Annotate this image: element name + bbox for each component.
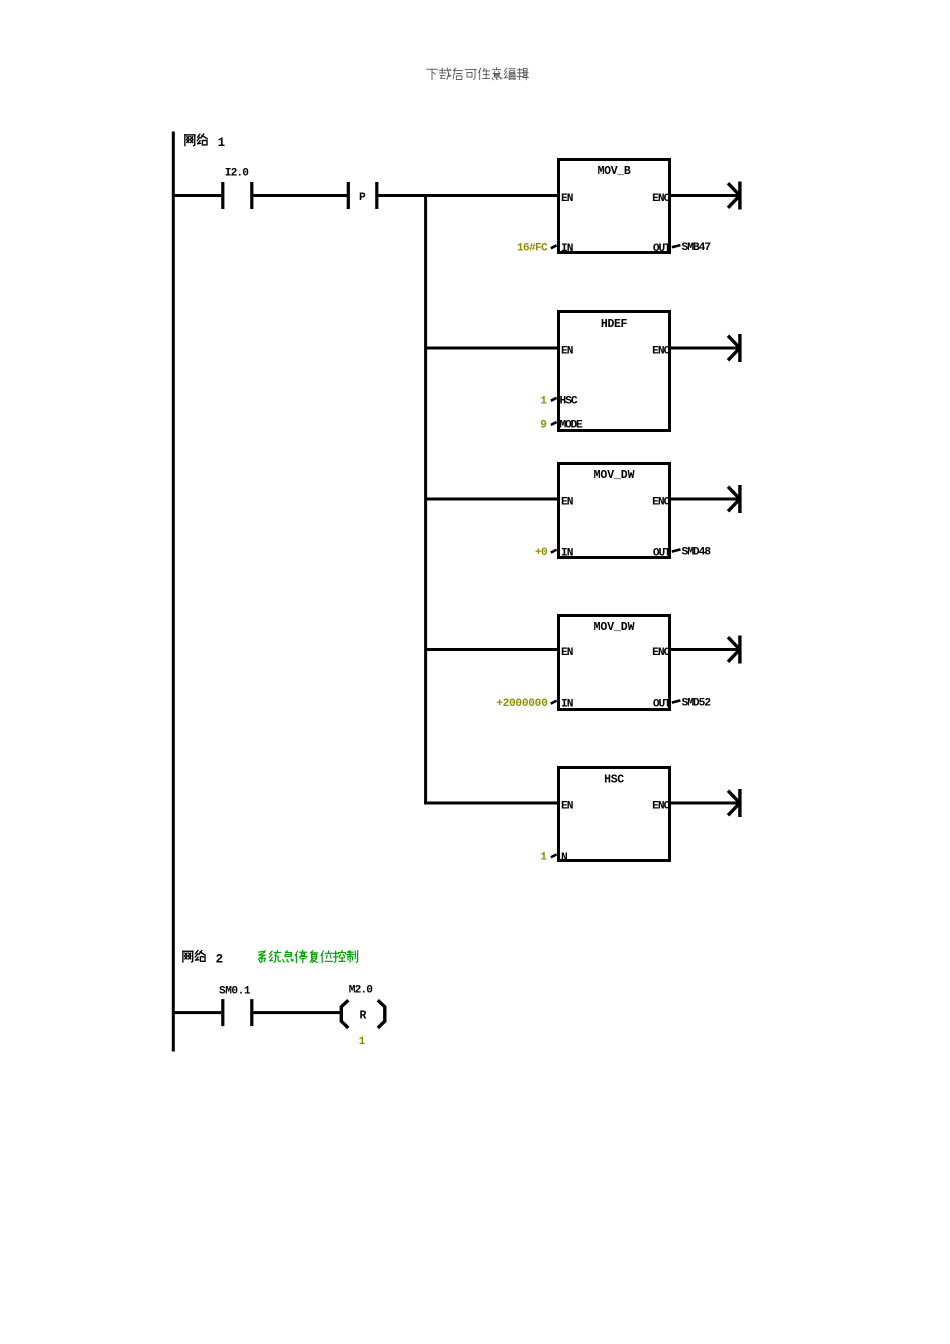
value 1 (reset count) xyxy=(359,1036,366,1048)
value +0 xyxy=(535,547,548,559)
svg-text:9: 9 xyxy=(540,420,547,432)
svg-text:IN: IN xyxy=(561,547,573,559)
function block HSC xyxy=(559,768,670,861)
pin N (HSC) xyxy=(551,852,568,864)
wire contact P to block MOV_B xyxy=(378,194,557,197)
svg-text:OUT: OUT xyxy=(653,243,671,255)
svg-text:OUT: OUT xyxy=(653,698,671,710)
svg-text:IN: IN xyxy=(561,243,573,255)
svg-text:OUT: OUT xyxy=(653,547,671,559)
pin IN (MOV_B) xyxy=(551,243,573,255)
wire rail to contact I2.0 xyxy=(173,194,221,197)
svg-text:SMB47: SMB47 xyxy=(682,242,711,254)
pin EN (HSC) xyxy=(561,801,573,813)
svg-text:SM0.1: SM0.1 xyxy=(219,986,251,998)
positive edge contact P xyxy=(347,182,379,209)
function block MOV_DW (SMD48) xyxy=(559,464,670,558)
pin ENO (MOV_DW 2) xyxy=(652,647,670,659)
wire contact I2.0 to contact P xyxy=(253,194,347,197)
svg-text:ENO: ENO xyxy=(652,193,670,205)
pin ENO (HDEF) xyxy=(652,346,670,358)
svg-text:1: 1 xyxy=(540,395,547,407)
svg-text:MOV_DW: MOV_DW xyxy=(594,621,635,634)
wire rail to contact SM0.1 xyxy=(173,1011,221,1014)
pin ENO (HSC) xyxy=(652,801,670,813)
function block MOV_DW (SMD52) xyxy=(559,616,670,710)
wire contact SM0.1 to coil xyxy=(253,1011,340,1014)
svg-text:EN: EN xyxy=(561,801,573,813)
value 1 (HSC) xyxy=(540,395,547,407)
svg-text:EN: EN xyxy=(561,346,573,358)
value 1 (N) xyxy=(540,852,547,864)
pin OUT (MOV_DW 2) xyxy=(653,698,681,710)
svg-text:SMD48: SMD48 xyxy=(682,546,712,558)
svg-text:I2.0: I2.0 xyxy=(225,167,249,179)
pin EN (MOV_B) xyxy=(561,193,573,205)
svg-text:EN: EN xyxy=(561,497,573,509)
value 9 (MODE) xyxy=(540,420,547,432)
operand label M2.0 xyxy=(349,985,373,997)
svg-text:MODE: MODE xyxy=(560,420,584,432)
pin ENO (MOV_B) xyxy=(652,193,670,205)
ENO arrow (MOV_DW 1) xyxy=(671,485,742,513)
wire branch to MOV_DW 2 xyxy=(426,648,557,651)
pin EN (HDEF) xyxy=(561,346,573,358)
header note text 下载后可任意编辑 xyxy=(427,68,529,80)
branch vertical wire xyxy=(424,196,427,804)
function block HDEF xyxy=(559,312,670,431)
network 2 comment 系统急停复位控制 xyxy=(259,950,358,962)
svg-text:EN: EN xyxy=(561,647,573,659)
operand label I2.0 xyxy=(225,167,249,179)
svg-text:IN: IN xyxy=(561,698,573,710)
ENO arrow (MOV_DW 2) xyxy=(671,636,742,664)
svg-text:+2000000: +2000000 xyxy=(496,698,548,710)
svg-text:1: 1 xyxy=(359,1036,366,1048)
svg-text:R: R xyxy=(360,1010,367,1023)
wire branch to MOV_DW 1 xyxy=(426,498,557,501)
ENO arrow (MOV_B) xyxy=(671,182,742,210)
svg-text:SMD52: SMD52 xyxy=(682,697,712,709)
svg-text:ENO: ENO xyxy=(652,801,670,813)
operand SMD48 xyxy=(682,546,712,558)
pin EN (MOV_DW 2) xyxy=(561,647,573,659)
svg-text:MOV_DW: MOV_DW xyxy=(594,469,635,482)
svg-text:2: 2 xyxy=(216,952,224,966)
pin OUT (MOV_B) xyxy=(653,243,681,255)
svg-text:P: P xyxy=(359,192,366,204)
operand SMD52 xyxy=(682,697,712,709)
pin HSC (HDEF) xyxy=(551,395,578,407)
svg-text:ENO: ENO xyxy=(652,346,670,358)
wire branch to HDEF xyxy=(426,347,557,350)
svg-text:HDEF: HDEF xyxy=(601,318,628,331)
pin ENO (MOV_DW 1) xyxy=(652,497,670,509)
pin IN (MOV_DW 1) xyxy=(551,547,573,559)
svg-text:M2.0: M2.0 xyxy=(349,985,373,997)
pin IN (MOV_DW 2) xyxy=(551,698,573,710)
pin MODE (HDEF) xyxy=(551,420,583,432)
svg-text:+0: +0 xyxy=(535,547,548,559)
svg-text:ENO: ENO xyxy=(652,497,670,509)
contact I2.0 xyxy=(221,182,253,209)
contact SM0.1 xyxy=(221,999,253,1026)
svg-text:1: 1 xyxy=(218,136,226,150)
operand SMB47 xyxy=(682,242,711,254)
svg-text:MOV_B: MOV_B xyxy=(598,165,631,178)
ENO arrow (HSC) xyxy=(671,789,742,817)
value +2000000 xyxy=(496,698,548,710)
svg-text:HSC: HSC xyxy=(560,395,578,407)
network 2 label 网络 2 xyxy=(183,951,223,967)
reset coil (R) M2.0 xyxy=(341,1000,385,1028)
pin OUT (MOV_DW 1) xyxy=(653,547,681,559)
svg-text:16#FC: 16#FC xyxy=(517,242,548,254)
svg-text:EN: EN xyxy=(561,193,573,205)
operand label SM0.1 xyxy=(219,986,251,998)
svg-text:ENO: ENO xyxy=(652,647,670,659)
wire branch corner to HSC xyxy=(424,802,557,805)
svg-text:N: N xyxy=(561,852,568,864)
pin EN (MOV_DW 1) xyxy=(561,497,573,509)
svg-text:HSC: HSC xyxy=(604,773,624,786)
network 1 label 网络 1 xyxy=(185,134,225,150)
value 16#FC xyxy=(517,242,548,254)
function block MOV_B xyxy=(559,160,670,253)
left power rail xyxy=(172,132,175,1052)
svg-text:1: 1 xyxy=(540,852,547,864)
ENO arrow (HDEF) xyxy=(671,334,742,362)
